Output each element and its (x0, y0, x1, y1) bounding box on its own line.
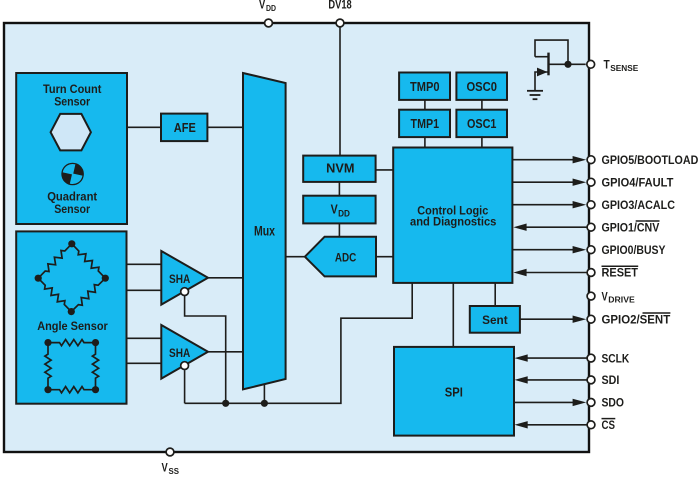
block NVM (303, 156, 375, 182)
wire Angle Sensor to SHA2 input bottom (127, 362, 162, 364)
pin TSENSE (587, 60, 595, 68)
pin CS (587, 421, 595, 429)
svg-text:Sent: Sent (482, 313, 508, 327)
pin VSS bottom (166, 448, 174, 456)
wire NVM to VDD block (338, 182, 340, 196)
wire Control Logic to SPI (452, 283, 454, 347)
pin VDD top (265, 19, 273, 27)
svg-text:and Diagnostics: and Diagnostics (410, 217, 496, 229)
pin SCLK (587, 354, 595, 362)
svg-text:AFE: AFE (174, 120, 196, 135)
svg-text:V: V (331, 202, 338, 217)
pin SDO (587, 399, 595, 407)
svg-text:SDO: SDO (602, 398, 625, 410)
label GPIO1/CNV with overline (602, 221, 660, 234)
svg-text:GPIO5/BOOTLOAD: GPIO5/BOOTLOAD (602, 155, 699, 167)
bridge sensor diamond (38, 244, 105, 312)
chip body outline (4, 23, 589, 452)
wire SCLK in arrow (515, 354, 588, 361)
svg-text:Sensor: Sensor (54, 204, 90, 216)
multiplexer Mux (243, 73, 286, 389)
junction SHA1 bus node (222, 400, 229, 407)
pin GPIO5 (587, 156, 595, 164)
wire SHA2 output to Mux (208, 351, 243, 353)
svg-text:GPIO1/CNV: GPIO1/CNV (602, 222, 660, 234)
svg-text:Sensor: Sensor (54, 97, 90, 109)
bridge diamond nodes (35, 240, 109, 315)
pin GPIO1 (587, 223, 595, 231)
svg-text:ADC: ADC (335, 250, 356, 264)
block Turn Count Sensor (16, 73, 127, 224)
svg-text:DD: DD (266, 4, 276, 13)
svg-text:NVM: NVM (326, 160, 354, 175)
wire GPIO0 out arrow (512, 246, 586, 253)
block Control Logic and Diagnostics (393, 148, 512, 283)
svg-text:DRIVE: DRIVE (608, 296, 635, 305)
svg-text:GPIO2/SENT: GPIO2/SENT (602, 314, 671, 326)
wire AFE to Mux (207, 126, 243, 128)
wire TMP1 to Control Logic (424, 137, 426, 147)
svg-text:SHA: SHA (169, 272, 190, 286)
wire GPIO4 out arrow (512, 179, 586, 186)
amplifier SHA2 (161, 325, 208, 379)
svg-text:GPIO3/ACALC: GPIO3/ACALC (602, 200, 676, 212)
label VSS (162, 463, 180, 476)
pin GPIO4 (587, 178, 595, 186)
block Sent (470, 306, 520, 333)
wire SHA2 clock bubble to bus (184, 370, 186, 403)
wire Mux to ADC (286, 256, 305, 258)
block Angle Sensor (16, 231, 126, 403)
svg-text:SENSE: SENSE (610, 64, 638, 73)
wire SDI in arrow (515, 376, 588, 383)
svg-text:RESET: RESET (602, 268, 639, 280)
pin VDRIVE (587, 292, 595, 300)
block VDD regulator (303, 196, 375, 224)
svg-text:Control Logic: Control Logic (417, 205, 489, 217)
wire SHA1 clock bubble to bus (185, 295, 226, 403)
pin DV18 top (336, 19, 344, 27)
label GPIO2/SENT with overline (602, 313, 671, 326)
svg-text:Quadrant: Quadrant (47, 192, 97, 204)
wire clock bus to Control Logic (185, 283, 413, 403)
wire Control Logic to Sent (494, 283, 496, 306)
wire TMP0 to TMP1 (424, 100, 426, 110)
hexagon magnetic sensor icon (51, 114, 91, 150)
svg-text:TMP1: TMP1 (411, 117, 440, 131)
wire GPIO3 out arrow (512, 201, 586, 208)
bridge square nodes (44, 339, 99, 393)
wire RESET in arrow (513, 269, 587, 276)
wire GPIO5 out arrow (512, 156, 586, 163)
block TMP0 (399, 73, 450, 100)
wire GPIO1 in arrow (513, 224, 587, 231)
svg-text:V: V (259, 0, 265, 12)
label RESET with overline (602, 266, 639, 279)
pin GPIO2 (587, 315, 595, 323)
svg-text:Angle Sensor: Angle Sensor (37, 319, 108, 333)
svg-text:V: V (602, 291, 608, 303)
pin RESET (587, 269, 595, 277)
label VDRIVE (602, 291, 635, 304)
pin GPIO3 (587, 201, 595, 209)
svg-text:DV18: DV18 (328, 0, 352, 12)
wire ADC to Control Logic (376, 256, 393, 258)
wire OSC0 to OSC1 (481, 100, 483, 110)
svg-text:SCLK: SCLK (602, 353, 630, 365)
wire DV18 to NVM (339, 23, 341, 156)
svg-text:SPI: SPI (445, 384, 463, 399)
wire Angle Sensor to SHA1 input bottom (127, 289, 162, 291)
block OSC0 (456, 73, 507, 100)
block OSC1 (456, 110, 507, 137)
svg-text:CS: CS (602, 420, 616, 432)
wire SHA1 output to Mux (208, 277, 243, 279)
quadrant sensor icon (47, 163, 97, 216)
ground (527, 91, 543, 99)
pin GPIO0 (587, 246, 595, 254)
label VDD top (259, 0, 276, 13)
svg-text:V: V (162, 463, 168, 475)
svg-text:OSC0: OSC0 (466, 80, 497, 94)
label TSENSE (604, 60, 639, 73)
pin SDI (587, 376, 595, 384)
transistor source arrow (537, 68, 548, 77)
svg-text:SHA: SHA (169, 346, 190, 360)
wire Turn Count Sensor to AFE (127, 126, 161, 128)
wire OSC1 to Control Logic (481, 137, 483, 147)
wire Angle Sensor to SHA1 input top (127, 263, 162, 265)
svg-text:Turn Count: Turn Count (43, 84, 102, 96)
svg-text:T: T (604, 60, 610, 72)
wire NVM to Control Logic (376, 169, 394, 171)
wire Mux bottom to bus (263, 383, 265, 403)
svg-text:GPIO0/BUSY: GPIO0/BUSY (602, 245, 666, 257)
svg-text:TMP0: TMP0 (410, 80, 440, 94)
junction drain node (564, 61, 571, 68)
wire SDO out arrow (514, 399, 586, 406)
wire GPIO2 SENT out arrow (520, 316, 586, 323)
block SPI (394, 347, 514, 436)
transistor temperature sensor (535, 40, 586, 90)
wire Angle Sensor to SHA2 input top (127, 337, 162, 339)
bridge sensor square (45, 340, 99, 393)
converter ADC (305, 237, 376, 277)
svg-text:DD: DD (338, 208, 350, 218)
junction Mux bus node (261, 400, 268, 407)
svg-text:Mux: Mux (254, 224, 275, 239)
label CS with overline (602, 419, 616, 432)
svg-text:SDI: SDI (602, 375, 620, 387)
amplifier SHA1 (161, 251, 208, 305)
wire CS in arrow (515, 421, 588, 428)
svg-text:GPIO4/FAULT: GPIO4/FAULT (602, 177, 674, 189)
block AFE (161, 114, 207, 142)
svg-text:OSC1: OSC1 (467, 117, 497, 131)
wire VDD block to ADC (338, 223, 340, 237)
svg-text:SS: SS (169, 467, 180, 476)
block TMP1 (399, 110, 450, 137)
